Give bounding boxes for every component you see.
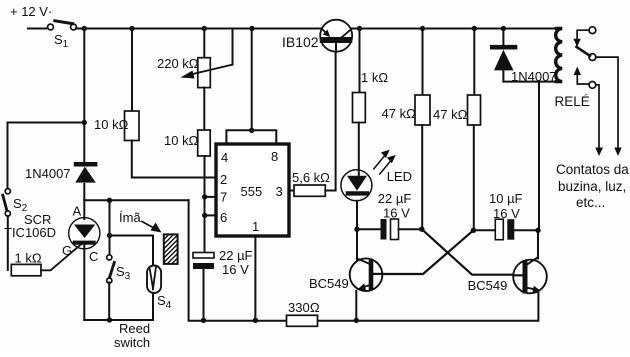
wire 47k-1 down: [421, 125, 423, 229]
wire S2 branch vertical: [7, 123, 9, 189]
wire SCR cathode down: [83, 245, 85, 321]
svg-text:G: G: [62, 243, 72, 258]
resistor 10k (pot leg): [164, 88, 210, 156]
node junction bracket: [249, 128, 254, 133]
transistor Q3 BC549 right: [468, 257, 547, 293]
svg-text:1N4007: 1N4007: [25, 166, 71, 181]
wire BC549-2 collector up: [537, 230, 539, 258]
potentiometer 220k: [157, 29, 233, 88]
svg-text:22 µF: 22 µF: [219, 248, 253, 263]
node junction on rail at 10k branch: [129, 26, 134, 31]
wire bottom rail left segment: [84, 319, 152, 321]
svg-text:IB102: IB102: [282, 34, 319, 50]
svg-text:+ 12 V·: + 12 V·: [10, 4, 52, 19]
wire BC549-1 emitter to rail: [355, 291, 357, 321]
svg-text:A: A: [73, 204, 82, 219]
node junction 47k-1 bottom: [419, 227, 424, 232]
wire gate diagonal: [41, 244, 82, 271]
svg-text:Reed: Reed: [119, 321, 150, 336]
resistor 330 ohm: [287, 300, 320, 326]
svg-text:BC549: BC549: [468, 278, 508, 293]
wire relay net down to 10uF: [538, 82, 540, 231]
node junction 10uF right: [535, 228, 540, 233]
node junction on rail at 555 supply: [249, 26, 254, 31]
capacitor C1 22uF vertical: [193, 248, 253, 277]
wire pin3 lead: [289, 190, 294, 192]
svg-text:220 kΩ: 220 kΩ: [157, 56, 199, 71]
resistor 47k first: [382, 29, 431, 126]
wire trigger loop vertical right: [188, 200, 190, 320]
wire 47k-2 down: [473, 125, 475, 230]
svg-text:5,6 kΩ: 5,6 kΩ: [292, 170, 330, 185]
wire S2 to 1k gate resistor: [7, 216, 9, 270]
switch S3: [107, 255, 131, 283]
node junction 47k-1 branch: [420, 26, 425, 31]
svg-text:switch: switch: [114, 335, 150, 350]
node junction S3 bottom on rail: [107, 317, 112, 322]
switch S1: [48, 21, 77, 50]
node junction at anode branch: [82, 120, 87, 125]
svg-text:3: 3: [276, 184, 283, 199]
svg-text:47 kΩ: 47 kΩ: [433, 107, 468, 122]
transistor Q1 IB102: [282, 20, 352, 52]
wire S4 bottom lead: [152, 294, 154, 321]
wire bracket to rail: [251, 29, 253, 131]
resistor 47k second: [433, 29, 481, 126]
wire diode to SCR anode: [83, 184, 85, 219]
inductor relay coil: [556, 29, 563, 82]
transistor Q2 BC549 left: [309, 258, 383, 291]
node junction relay diode branch: [501, 26, 506, 31]
resistor 1k collector: [353, 29, 389, 123]
resistor 10k (left): [94, 29, 139, 141]
wire S2 branch horizontal: [8, 122, 85, 124]
wire 1k to LED: [358, 123, 360, 171]
wire LED to collector node: [356, 201, 358, 260]
svg-text:16 V: 16 V: [383, 206, 410, 221]
wire S4 branch horizontal: [110, 235, 154, 237]
wire cross-couple B: [383, 230, 474, 274]
wire 5.6k to IB102 base: [325, 52, 335, 190]
svg-text:1 kΩ: 1 kΩ: [15, 251, 42, 266]
node junction pin7 stub: [202, 194, 207, 199]
svg-text:C: C: [89, 249, 98, 264]
relay armature: [577, 47, 590, 56]
diode D1 1N4007: [25, 164, 96, 182]
node label contacts: [556, 162, 629, 210]
svg-text:RELÉ: RELÉ: [555, 94, 590, 109]
node junction pin6 stub: [202, 213, 207, 218]
capacitor C3 10uF horizontal: [473, 191, 538, 240]
node junction cap1 bottom on rail: [201, 318, 206, 323]
svg-text:10 kΩ: 10 kΩ: [94, 117, 129, 132]
node junction on rail at pot branch: [202, 26, 207, 31]
wire diode bottom to coil bottom: [503, 81, 558, 83]
svg-text:16 V: 16 V: [493, 206, 520, 221]
node junction emitter rail: [354, 318, 359, 323]
wire 555 supply bracket: [226, 130, 276, 144]
svg-text:7: 7: [220, 190, 227, 205]
svg-text:1 kΩ: 1 kΩ: [361, 70, 388, 85]
svg-text:10 µF: 10 µF: [489, 191, 523, 206]
reed switch S4: [147, 266, 172, 312]
svg-text:Ímã: Ímã: [119, 210, 141, 225]
resistor R 1k gate: [11, 251, 42, 276]
svg-text:47 kΩ: 47 kΩ: [382, 106, 417, 121]
svg-text:buzina, luz,: buzina, luz,: [558, 179, 626, 194]
svg-text:6: 6: [220, 210, 227, 225]
wire 10k to pin2: [132, 141, 216, 178]
relay contact top (NC): [573, 27, 595, 47]
svg-text:16 V: 16 V: [222, 262, 249, 277]
node Ima label and arrow: [119, 210, 162, 233]
wire pin6 stub: [205, 214, 216, 216]
svg-text:2: 2: [220, 172, 227, 187]
LED D2: [341, 150, 412, 201]
wire pot leg down to cap: [204, 156, 206, 253]
wire S4 top lead: [152, 236, 154, 266]
magnet bar (hatched): [160, 226, 182, 285]
svg-text:BC549: BC549: [309, 276, 349, 291]
wire BC549-2 emitter to rail: [189, 293, 539, 321]
wire cross-couple A: [422, 229, 515, 275]
svg-text:Contatos da: Contatos da: [556, 162, 629, 177]
node junction 1k branch: [357, 26, 362, 31]
node junction trigger loop: [107, 198, 112, 203]
svg-text:1: 1: [252, 219, 259, 234]
diode D3 1N4007 relay: [492, 29, 556, 85]
op-amp U1 555 timer box: [216, 144, 289, 236]
capacitor C2 22uF horizontal: [357, 191, 422, 240]
wire pin1 to bottom rail: [254, 236, 256, 320]
wire pin7 stub: [205, 196, 216, 198]
wire trigger loop horizontal: [84, 199, 188, 201]
wire cap to bottom rail: [203, 269, 205, 320]
svg-text:8: 8: [271, 149, 278, 164]
wire S3 branch vertical: [109, 200, 111, 254]
resistor 5.6k: [292, 170, 330, 196]
wire top rail right (IB102 to relay coil): [352, 28, 557, 30]
svg-text:TIC106D: TIC106D: [4, 225, 56, 240]
svg-text:etc...: etc...: [576, 195, 605, 210]
svg-text:330Ω: 330Ω: [288, 300, 320, 315]
node junction 47k-2 bottom: [471, 228, 476, 233]
SCR TIC106D: [4, 204, 100, 265]
wire SCR anode branch vertical: [83, 29, 85, 163]
wire supply lead into S1: [28, 28, 46, 30]
wire top rail left (S1 to IB102): [76, 28, 322, 30]
node junction 47k-2 branch: [472, 26, 477, 31]
switch S2: [3, 189, 28, 217]
svg-text:22 µF: 22 µF: [378, 191, 412, 206]
node junction on rail at SCR branch: [82, 26, 87, 31]
svg-text:4: 4: [221, 150, 228, 165]
node junction S4 branch: [107, 233, 112, 238]
node junction pin1 on rail: [253, 318, 258, 323]
node junction cap22-2: [354, 227, 359, 232]
relay contact bottom (NO): [574, 67, 603, 157]
svg-text:555: 555: [241, 184, 263, 199]
svg-text:LED: LED: [387, 169, 412, 184]
wire S3 to bottom rail: [108, 282, 110, 320]
relay contact common (middle): [589, 54, 622, 156]
svg-text:10 kΩ: 10 kΩ: [164, 133, 199, 148]
